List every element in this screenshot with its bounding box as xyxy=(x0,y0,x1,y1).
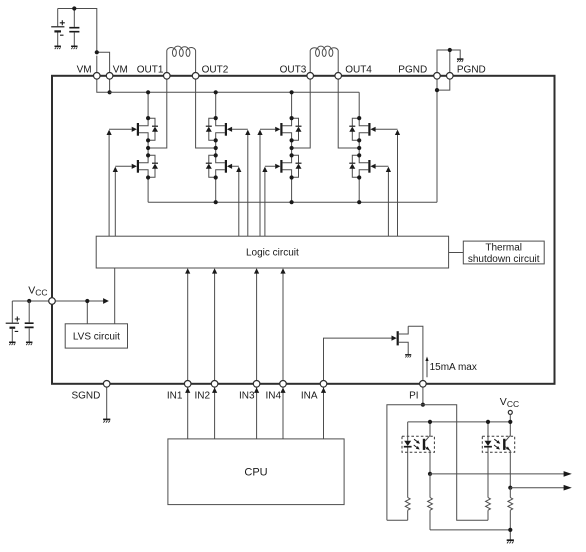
wire gate drive Q7 xyxy=(376,129,398,236)
transistor Q8 (OUT4 low side) xyxy=(349,155,375,177)
svg-text:Logic circuit: Logic circuit xyxy=(246,248,299,259)
transistor Q9 (PI driver) xyxy=(398,326,409,354)
wire logic to LVS xyxy=(114,268,116,324)
svg-text:15mA max: 15mA max xyxy=(430,362,477,373)
wire OUT3 pin to bridge node xyxy=(292,79,311,148)
wire output 1 arrow xyxy=(430,473,564,475)
transistor Q1 (OUT1 high side) xyxy=(132,118,158,140)
junction (output 2) xyxy=(508,486,512,490)
pin PGND (outer) xyxy=(447,73,454,80)
wire VM pins to internal VM rail xyxy=(97,79,110,92)
capacitor C2 (ceramic on VM) xyxy=(69,9,79,47)
wire SGND to ground xyxy=(106,387,108,419)
svg-text:IN1: IN1 xyxy=(167,390,183,401)
ground (C2) xyxy=(71,46,77,49)
pin INA xyxy=(320,381,327,388)
junction (PGND inner) xyxy=(435,88,439,92)
junction (PI rail) xyxy=(421,403,425,407)
ground (SGND) xyxy=(103,419,110,422)
pin OUT1 xyxy=(164,73,171,80)
svg-text:IN4: IN4 xyxy=(265,390,281,401)
svg-text:IN2: IN2 xyxy=(194,390,210,401)
wire VCC rail (opto) xyxy=(408,421,511,423)
junction Q4 source at rail xyxy=(214,175,218,179)
junction Q8 source at rail xyxy=(357,175,361,179)
resistor R4 xyxy=(508,498,513,511)
wire PI pin to external rail xyxy=(422,387,424,405)
wire internal VM rail xyxy=(110,91,360,93)
op block: logic circuit box xyxy=(96,236,448,268)
wire PGND pins loop to external ground xyxy=(437,50,460,73)
pin IN2 xyxy=(211,381,218,388)
wire logic to thermal shutdown xyxy=(449,252,464,254)
junction Q3 source xyxy=(214,138,218,142)
junction Q5 source xyxy=(290,138,294,142)
svg-text:shutdown circuit: shutdown circuit xyxy=(468,254,540,265)
node OUT2 xyxy=(214,146,218,150)
pin PGND (inner) xyxy=(434,73,441,80)
wire OUT4 pin to bridge node xyxy=(338,79,359,148)
block: thermal shutdown circuit xyxy=(463,241,544,264)
junction Q5 drain xyxy=(290,116,294,120)
wire INA xyxy=(324,338,392,439)
pin VM (inner) xyxy=(106,73,113,80)
wire gate drive Q8 xyxy=(376,166,389,236)
wire gate drive Q3 xyxy=(232,129,248,236)
wire output 2 arrow xyxy=(510,487,564,489)
svg-text:IN3: IN3 xyxy=(239,390,255,401)
wire bottom ground rail xyxy=(430,530,510,540)
wire PC2 LED cathode to R3 xyxy=(487,452,489,520)
ground (C4) xyxy=(26,342,32,345)
transistor Q2 (OUT1 low side) xyxy=(132,155,158,177)
svg-text:PGND: PGND xyxy=(457,64,486,75)
ground (PGND external) xyxy=(457,59,463,62)
pin OUT4 xyxy=(335,73,342,80)
wire gate drive Q1 xyxy=(109,129,132,236)
ground (C3) xyxy=(9,342,15,345)
wire VCC external xyxy=(12,300,48,302)
junction VM rail at Q1 xyxy=(146,90,150,94)
junction (VCC to LVS) xyxy=(85,299,89,303)
ground (Q9 source) xyxy=(405,355,411,358)
junction (VM rail start) xyxy=(108,90,112,94)
pin PI xyxy=(420,381,427,388)
inductor L2 (motor coil OUT3-OUT4) xyxy=(310,46,338,73)
wire gate drive Q2 xyxy=(115,166,132,236)
pin IN3 xyxy=(253,381,260,388)
wire PI rail and return loops xyxy=(387,405,488,521)
svg-text:INA: INA xyxy=(301,390,318,401)
svg-text:PGND: PGND xyxy=(398,64,427,75)
wire PC1 LED cathode to R1 xyxy=(407,452,409,520)
transistor Q5 (OUT3 high side) xyxy=(275,118,301,140)
junction (VCC caps) xyxy=(27,299,31,303)
wire PC2 emitter to output node xyxy=(509,452,511,487)
capacitor C4 (ceramic on VCC) xyxy=(25,301,34,342)
junction Q2 drain xyxy=(146,153,150,157)
junction Q1 drain xyxy=(146,116,150,120)
junction ground rail at Q8 xyxy=(357,200,361,204)
junction (cap bus) xyxy=(72,6,76,10)
pin IN4 xyxy=(280,381,287,388)
node OUT3 xyxy=(290,146,294,150)
svg-text:LVS circuit: LVS circuit xyxy=(73,332,120,343)
wire VM caps to VM pins xyxy=(58,9,110,73)
junction VM rail at Q5 xyxy=(290,90,294,94)
transistor Q7 (OUT4 high side) xyxy=(349,118,375,140)
pin OUT2 xyxy=(192,73,199,80)
wire PC1 emitter to output node xyxy=(429,452,431,474)
wire R4 to ground rail xyxy=(509,488,511,530)
wire OUT1 pin to bridge node xyxy=(148,79,167,148)
pin VCC xyxy=(49,298,56,305)
junction (VCC at rail) xyxy=(508,420,512,424)
junction Q6 source at rail xyxy=(290,175,294,179)
wire VCC pin internal feed xyxy=(55,301,104,324)
node OUT4 xyxy=(357,146,361,150)
capacitor C3 (electrolytic on VCC) xyxy=(6,301,20,342)
junction (VM pin loop top) xyxy=(95,50,99,54)
wire IN1 xyxy=(187,273,189,439)
block: LVS circuit xyxy=(65,324,127,348)
svg-text:VCC: VCC xyxy=(28,285,47,298)
wire IN3 xyxy=(256,273,258,439)
15mA max current arrow xyxy=(426,360,428,378)
capacitor C1 (electrolytic on VM) xyxy=(51,9,65,47)
wire internal ground rail xyxy=(148,201,437,203)
svg-text:VM: VM xyxy=(113,64,128,75)
block: CPU box xyxy=(168,439,344,505)
svg-text:Thermal: Thermal xyxy=(485,243,522,254)
svg-text:OUT1: OUT1 xyxy=(137,64,164,75)
wire gate drive Q4 xyxy=(232,166,239,236)
optocoupler PC1 xyxy=(402,422,434,453)
junction ground rail at Q6 xyxy=(290,200,294,204)
svg-text:OUT2: OUT2 xyxy=(202,64,229,75)
junction Q3 drain xyxy=(214,116,218,120)
transistor Q3 (OUT2 high side) xyxy=(206,118,232,140)
svg-text:OUT3: OUT3 xyxy=(280,64,307,75)
svg-text:PI: PI xyxy=(409,390,418,401)
wire IN4 xyxy=(282,273,284,439)
pin SGND xyxy=(103,381,110,388)
ground (C1) xyxy=(54,46,60,49)
inductor L1 (motor coil OUT1-OUT2) xyxy=(167,46,196,73)
optocoupler PC2 xyxy=(482,422,514,453)
wire OUT3 half-bridge vertical xyxy=(291,92,293,202)
svg-text:SGND: SGND xyxy=(71,390,100,401)
junction Q7 drain xyxy=(357,116,361,120)
junction VM rail at Q3 xyxy=(214,90,218,94)
junction (output 1) xyxy=(428,472,432,476)
IC chip outline U1 xyxy=(52,76,555,384)
pin VM (outer) xyxy=(94,73,101,80)
wire PGND pins to internal ground rail xyxy=(437,79,450,202)
junction (PC1 collector at rail) xyxy=(428,420,432,424)
junction (PC2 LED at rail) xyxy=(486,420,490,424)
resistor R2 xyxy=(428,498,433,511)
junction Q8 drain xyxy=(357,153,361,157)
svg-text:OUT4: OUT4 xyxy=(345,64,372,75)
svg-text:VM: VM xyxy=(77,64,92,75)
transistor Q4 (OUT2 low side) xyxy=(206,155,232,177)
resistor R3 xyxy=(486,498,491,511)
wire OUT4 half-bridge vertical xyxy=(358,92,360,202)
junction Q2 source xyxy=(146,175,150,179)
resistor R1 xyxy=(405,498,410,511)
pin OUT3 xyxy=(307,73,314,80)
junction Q7 source xyxy=(357,138,361,142)
wire OUT2 half-bridge vertical xyxy=(215,92,217,202)
VCC terminal (bottom right) xyxy=(508,410,512,414)
junction ground rail at Q4 xyxy=(214,200,218,204)
wire OUT2 pin to bridge node xyxy=(196,79,216,148)
wire gate drive Q6 xyxy=(265,166,276,236)
wire IN2 xyxy=(214,273,216,439)
svg-text:CPU: CPU xyxy=(244,467,267,479)
wire OUT1 half-bridge vertical xyxy=(147,92,149,202)
node OUT1 xyxy=(146,146,150,150)
transistor Q6 (OUT3 low side) xyxy=(275,155,301,177)
junction Q1 source xyxy=(146,138,150,142)
wire R2 to ground rail xyxy=(429,474,431,530)
junction (ground rail) xyxy=(508,528,512,532)
wire gate drive Q5 xyxy=(260,129,275,236)
wire Q9 drain to PI pin xyxy=(408,326,423,380)
svg-text:VCC: VCC xyxy=(500,396,519,409)
ground (opto circuit) xyxy=(507,540,514,543)
junction Q6 drain xyxy=(290,153,294,157)
junction Q4 drain xyxy=(214,153,218,157)
junction (PGND top loop) xyxy=(448,48,452,52)
pin IN1 xyxy=(184,381,191,388)
